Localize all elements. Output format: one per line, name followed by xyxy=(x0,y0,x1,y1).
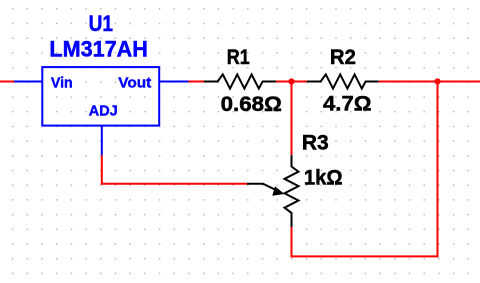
potentiometer R3 wiper arm xyxy=(247,184,277,191)
potentiometer R3 wiper arrowhead xyxy=(272,186,284,195)
wire bottom horizontal xyxy=(291,255,439,257)
svg-text:1kΩ: 1kΩ xyxy=(304,166,343,189)
wire R1 to node A xyxy=(276,81,307,83)
resistor R2 xyxy=(307,74,379,88)
wire R3 bottom down xyxy=(291,227,293,257)
svg-text:R2: R2 xyxy=(330,46,356,69)
wire input (left rail) xyxy=(0,81,14,83)
wire right vertical up to node B xyxy=(437,82,439,258)
svg-text:Vout: Vout xyxy=(118,75,151,91)
regulator U1 pin Vout lead xyxy=(159,81,188,83)
wire Vout to R1 xyxy=(189,81,205,83)
wire node A down to R3 xyxy=(291,81,293,156)
node B junction dot xyxy=(434,78,440,84)
regulator U1 body (LM317AH box) xyxy=(42,67,159,126)
svg-text:4.7Ω: 4.7Ω xyxy=(323,93,372,116)
wire ADJ down xyxy=(101,155,103,184)
svg-text:ADJ: ADJ xyxy=(89,104,118,120)
regulator U1 pin Vin lead xyxy=(14,81,42,83)
wire R2 to right edge xyxy=(379,81,480,83)
svg-text:Vin: Vin xyxy=(51,75,73,91)
svg-text:R1: R1 xyxy=(227,46,250,69)
node A junction dot xyxy=(288,78,294,84)
svg-text:0.68Ω: 0.68Ω xyxy=(221,92,282,116)
svg-text:R3: R3 xyxy=(302,132,329,155)
svg-text:U1: U1 xyxy=(89,11,113,36)
regulator U1 pin ADJ lead xyxy=(101,126,103,156)
svg-text:LM317AH: LM317AH xyxy=(49,36,147,61)
wire ADJ horizontal to wiper xyxy=(101,183,247,185)
resistor R1 xyxy=(204,74,276,88)
potentiometer R3 body xyxy=(285,155,299,227)
